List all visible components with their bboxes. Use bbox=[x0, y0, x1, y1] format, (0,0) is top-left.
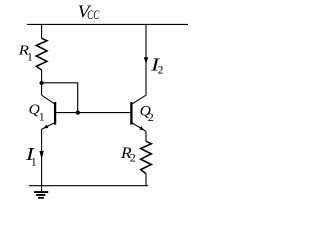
label R2 bbox=[120, 145, 136, 165]
wire from R1 bottom to node A bbox=[41, 70, 43, 83]
label I1 bbox=[25, 144, 37, 169]
transistor Q2 bbox=[131, 95, 146, 131]
resistor R2 bbox=[141, 141, 152, 174]
label Q1 bbox=[29, 102, 45, 124]
wire Q1 emitter to ground rail bbox=[41, 129, 43, 186]
transistor Q1 bbox=[42, 83, 56, 129]
svg-text:CC: CC bbox=[87, 8, 100, 22]
current arrow I2 bbox=[144, 57, 148, 64]
label R1 bbox=[17, 44, 33, 64]
svg-text:2: 2 bbox=[158, 65, 164, 77]
wire Q2 emitter to R2 top bbox=[145, 131, 147, 141]
svg-text:1: 1 bbox=[39, 110, 45, 124]
node A junction dot (R1 / Q1 collector / base tie) bbox=[40, 81, 44, 85]
wire base connection Q1 base to Q2 base bbox=[55, 112, 131, 114]
svg-text:2: 2 bbox=[130, 150, 136, 164]
resistor R1 bbox=[36, 38, 47, 70]
svg-text:1: 1 bbox=[27, 49, 33, 63]
svg-text:1: 1 bbox=[31, 155, 37, 169]
label Q2 bbox=[140, 104, 154, 125]
wire R2 bottom to rail bbox=[145, 174, 147, 186]
wire bottom rail bbox=[29, 185, 148, 187]
wire VCC top rail bbox=[27, 23, 188, 25]
label I2 bbox=[150, 55, 164, 77]
current arrow I1 bbox=[39, 151, 43, 159]
wire from VCC rail to R1 top bbox=[41, 24, 43, 38]
svg-text:2: 2 bbox=[148, 110, 154, 124]
ground bbox=[34, 186, 48, 198]
label VCC bbox=[78, 2, 100, 23]
wire node A to base net corner bbox=[42, 83, 78, 113]
wire VCC rail to Q2 collector bbox=[145, 24, 147, 95]
node B junction dot on base wire bbox=[76, 111, 80, 115]
